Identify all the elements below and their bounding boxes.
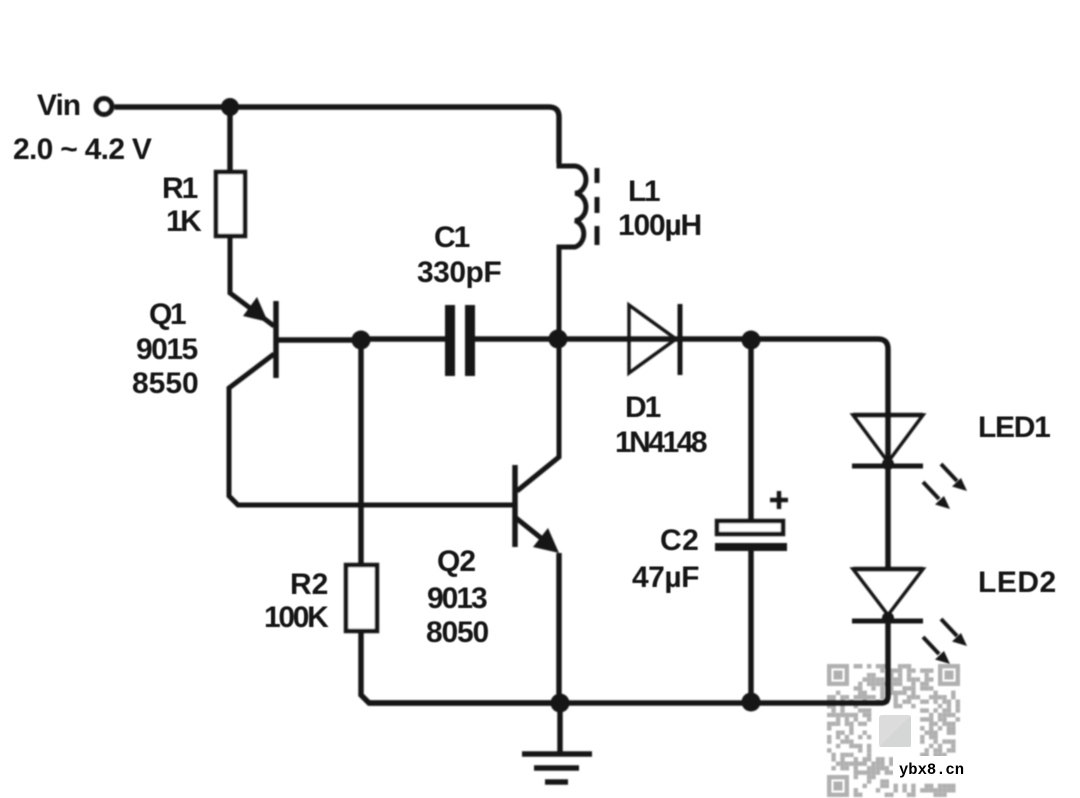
- wire: Q2 collector up to center node: [517, 339, 559, 491]
- transistor Q1 base bar: [273, 301, 279, 378]
- wire: R2 bottom to ground rail: [361, 631, 560, 703]
- svg-text:Q1: Q1: [149, 298, 186, 331]
- node: C1 / L1 / Q2 collector / D1 junction: [549, 330, 568, 349]
- wire: C2 bottom lead to rail: [748, 551, 754, 702]
- wire: Q1 collector down to Q2 base rail: [229, 354, 515, 505]
- wire: C1 right plate to center node: [475, 336, 558, 342]
- svg-text:LED1: LED1: [978, 411, 1050, 444]
- svg-text:L1: L1: [628, 175, 660, 208]
- LED2 cathode bar: [852, 619, 923, 624]
- QR watermark ybx8.cn: [827, 664, 960, 797]
- wire: LED1 to LED2: [885, 466, 891, 569]
- node: D1 / C2 / LED rail junction: [742, 331, 761, 350]
- node: C2 bottom junction: [742, 693, 761, 712]
- capacitor C2 top plate: [717, 521, 783, 534]
- node: junction Vin/R1: [221, 98, 239, 116]
- ground symbol: [522, 703, 592, 782]
- wire: Q2 emitter down to ground node: [556, 553, 562, 703]
- svg-text:100µH: 100µH: [618, 209, 701, 242]
- capacitor C1 plates: [445, 305, 455, 376]
- LED1 anode wire through triangle: [885, 415, 891, 466]
- node: Q1 base / C1 / R2 junction: [352, 331, 371, 350]
- svg-text:9013: 9013: [427, 582, 487, 615]
- svg-text:100K: 100K: [264, 601, 329, 634]
- svg-text:Q2: Q2: [437, 545, 475, 578]
- svg-text:LED2: LED2: [978, 566, 1057, 599]
- capacitor C2 plus sign: [770, 491, 788, 509]
- svg-text:2.0 ~ 4.2 V: 2.0 ~ 4.2 V: [13, 133, 152, 166]
- inductor L1 winding: [559, 163, 586, 339]
- wire: Q1 base to node: [276, 337, 361, 343]
- svg-text:1N4148: 1N4148: [615, 426, 707, 459]
- wire: Vin terminal to top rail corner: [115, 107, 560, 163]
- svg-text:R2: R2: [290, 568, 328, 601]
- diode D1 cathode bar: [678, 304, 683, 375]
- svg-text:330pF: 330pF: [417, 256, 501, 289]
- wire: node to C1 left plate: [361, 336, 445, 342]
- diode D1 triangle: [629, 305, 676, 373]
- input terminal Vin: [96, 99, 112, 115]
- QR center white badge: [874, 710, 916, 752]
- LED1 triangle: [853, 415, 923, 462]
- svg-text:ybx8.cn: ybx8.cn: [899, 761, 964, 779]
- LED1 light arrows: [941, 464, 957, 481]
- inductor L1 core dashes: [595, 168, 600, 245]
- Q2 emitter with arrow (NPN): [516, 518, 541, 538]
- svg-text:Vin: Vin: [37, 89, 80, 122]
- wire: center node to D1 anode (through triangle): [558, 336, 751, 342]
- svg-text:47µF: 47µF: [632, 561, 699, 594]
- LED2 light arrows: [941, 619, 957, 636]
- svg-text:8550: 8550: [132, 367, 199, 400]
- svg-text:R1: R1: [162, 172, 198, 205]
- LED1 cathode bar: [852, 464, 923, 469]
- capacitor C2 bottom plate: [715, 543, 787, 551]
- svg-text:8050: 8050: [426, 616, 488, 649]
- resistor R1: [216, 172, 245, 236]
- svg-text:D1: D1: [625, 391, 661, 424]
- LED2 triangle: [853, 569, 923, 615]
- wire: junction to R1 top: [227, 107, 233, 172]
- wire: C2 node to LED column: [751, 339, 888, 415]
- Q1 emitter arrow (PNP, pointing into base): [243, 297, 268, 322]
- resistor R2: [346, 565, 377, 631]
- node: ground junction: [551, 694, 570, 713]
- QR caption ybx8.cn: [893, 756, 971, 778]
- svg-text:C1: C1: [434, 221, 470, 254]
- transistor Q2 base bar: [512, 465, 518, 547]
- wire: C2 top lead: [748, 340, 754, 519]
- wire: LED2 down and bottom rail to R2 corner: [369, 621, 888, 703]
- svg-text:C2: C2: [660, 524, 699, 557]
- wire: node down through crossing to R2: [358, 340, 364, 565]
- wire: R1 bottom to Q1 emitter: [230, 236, 274, 326]
- svg-text:1K: 1K: [166, 205, 202, 238]
- svg-text:9015: 9015: [136, 333, 198, 366]
